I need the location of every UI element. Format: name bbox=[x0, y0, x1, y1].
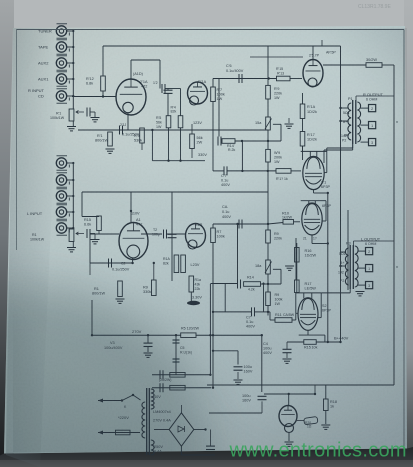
svg-text:www.entronics.com: www.entronics.com bbox=[229, 440, 407, 462]
svg-text:CL13R1.78.9E: CL13R1.78.9E bbox=[358, 4, 391, 10]
